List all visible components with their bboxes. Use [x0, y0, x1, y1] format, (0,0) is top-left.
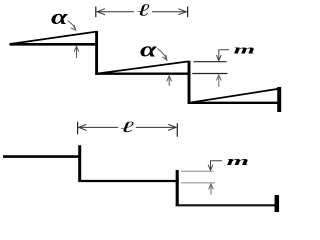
svg-text:m: m	[234, 42, 256, 56]
tooth 2 sloped edge wire	[99, 61, 189, 73]
dimension m (top): lower extension line at baseline level	[192, 73, 227, 75]
dimension l (bottom): left arrow segment	[79, 124, 119, 130]
staircase step 2 wire	[79, 180, 179, 182]
dimension l (top): left arrow segment	[97, 9, 134, 15]
dimension m (top): up arrow below lower line	[216, 75, 221, 87]
staircase step 3 wire	[176, 204, 276, 206]
staircase right terminal bar	[275, 195, 280, 212]
dimension m (bottom): up arrow below lower line	[209, 184, 214, 195]
dimension l (bottom staircase pitch): left extension tick	[77, 122, 79, 134]
staircase riser 1 wire	[78, 145, 81, 182]
alpha 1 leader arrow to sloped edge	[68, 21, 76, 31]
dimension m (bottom): upper extension line	[181, 170, 214, 172]
svg-text:m: m	[227, 153, 250, 168]
svg-text:ℓ: ℓ	[120, 119, 135, 136]
dimension m (bottom): lower extension line	[181, 182, 215, 184]
tooth 3 sloped edge wire	[192, 89, 279, 103]
dimension l (top sawtooth pitch): left extension tick	[95, 7, 97, 18]
tooth 1 baseline wire	[10, 43, 99, 46]
svg-text:α: α	[51, 4, 69, 29]
dimension m (top): leader bracket and down arrow	[216, 50, 229, 61]
tooth 1 vertical drop wire	[95, 31, 98, 75]
tooth 3 baseline wire	[188, 102, 278, 104]
tooth 2 baseline wire	[96, 72, 191, 74]
dimension l (bottom): right arrow segment	[136, 124, 176, 130]
alpha 2 leader arrow to sloped edge	[158, 49, 167, 61]
svg-text:α: α	[140, 37, 158, 62]
tooth 3 right terminal bar	[277, 87, 281, 112]
dimension m (top): upper extension line at apex level	[194, 61, 227, 63]
tooth 1 sloped edge wire	[10, 32, 97, 44]
dimension m (bottom): leader bracket and down arrow	[208, 161, 222, 171]
staircase step 1 wire	[3, 155, 81, 158]
tooth 2 vertical drop wire	[188, 61, 191, 104]
dimension l (top): right arrow segment	[152, 9, 186, 15]
staircase riser 2 wire	[176, 170, 179, 206]
dimension l (bottom): right extension tick	[176, 123, 178, 137]
svg-text:ℓ: ℓ	[137, 0, 150, 19]
alpha 2 angle up-arrow at baseline	[167, 76, 172, 86]
dimension l (top): right extension tick	[187, 7, 189, 18]
alpha 1 angle up-arrow at baseline	[74, 46, 79, 58]
